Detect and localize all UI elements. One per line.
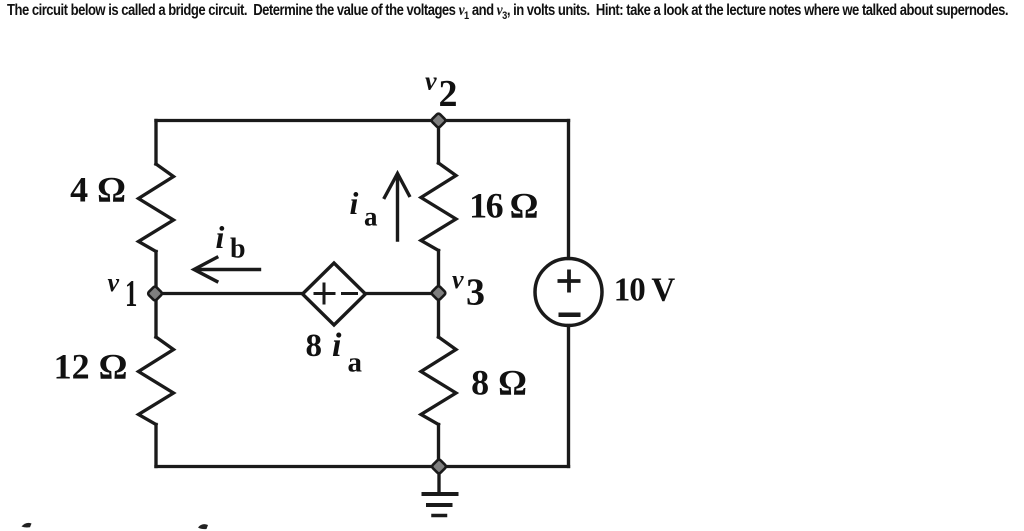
svg-text:16 Ω: 16 Ω bbox=[469, 186, 538, 226]
resistor R-12ohm zigzag bbox=[139, 337, 174, 425]
plus sign inside 10V source bbox=[558, 270, 581, 315]
svg-text:10 V: 10 V bbox=[614, 271, 675, 309]
svg-text:a: a bbox=[364, 202, 378, 232]
wire left lower lead bbox=[154, 425, 157, 467]
ground stem bbox=[437, 467, 440, 493]
wire bottom bbox=[156, 465, 569, 468]
wire middle column lower lead bbox=[437, 425, 440, 467]
wire right upper bbox=[567, 121, 570, 259]
node v2 dot bbox=[431, 113, 447, 129]
minus sign inside 10V source bbox=[559, 312, 581, 317]
svg-text:b: b bbox=[230, 234, 246, 265]
wire middle horizontal left of dep source bbox=[156, 292, 303, 295]
svg-text:a: a bbox=[348, 347, 363, 379]
ground bar 1 bbox=[424, 492, 457, 496]
resistor R-4ohm zigzag bbox=[139, 164, 174, 252]
node v1 dot bbox=[147, 286, 163, 302]
wire left between 4ohm and node v1 bbox=[154, 252, 157, 294]
wire top bbox=[156, 119, 569, 122]
node ground-junction dot bbox=[431, 459, 447, 475]
ground bar 2 bbox=[428, 503, 451, 507]
wire middle column upper lead bbox=[437, 121, 440, 164]
current arrow i_b (left) bbox=[194, 257, 260, 281]
resistor R-16ohm zigzag bbox=[421, 163, 456, 251]
svg-text:i: i bbox=[216, 219, 225, 255]
svg-text:12 Ω: 12 Ω bbox=[54, 347, 128, 387]
ground bar 3 bbox=[433, 514, 446, 518]
svg-text:4 Ω: 4 Ω bbox=[70, 170, 126, 210]
dependent source diamond body bbox=[303, 263, 366, 325]
voltage source V-10V circle bbox=[535, 259, 602, 326]
svg-text:3: 3 bbox=[466, 272, 485, 314]
wire middle column between 16ohm and v3 bbox=[437, 251, 440, 294]
svg-text:8: 8 bbox=[306, 328, 323, 364]
wire left upper lead bbox=[154, 121, 157, 165]
plus sign inside dep source bbox=[314, 283, 359, 305]
stray mark bottom-left 1 bbox=[22, 523, 32, 528]
svg-text:v: v bbox=[108, 268, 120, 297]
stray mark bottom-left 2 bbox=[198, 524, 208, 529]
minus sign inside dep source bbox=[341, 292, 358, 295]
svg-text:1: 1 bbox=[125, 272, 137, 315]
node v3 dot bbox=[431, 285, 447, 301]
problem statement text bbox=[7, 2, 862, 22]
svg-text:i: i bbox=[350, 185, 359, 221]
wire right lower bbox=[567, 326, 570, 467]
wire middle horizontal right of dep source bbox=[366, 292, 439, 295]
wire left between node v1 and 12ohm bbox=[154, 294, 157, 338]
svg-text:2: 2 bbox=[439, 73, 458, 115]
wire middle column between v3 and 8ohm bbox=[437, 293, 440, 337]
svg-text:i: i bbox=[332, 327, 342, 364]
svg-text:v: v bbox=[425, 67, 437, 96]
current arrow i_a (up) bbox=[385, 174, 410, 241]
svg-text:v: v bbox=[452, 265, 464, 294]
svg-text:8 Ω: 8 Ω bbox=[471, 363, 527, 403]
resistor R-8ohm zigzag bbox=[421, 337, 456, 425]
